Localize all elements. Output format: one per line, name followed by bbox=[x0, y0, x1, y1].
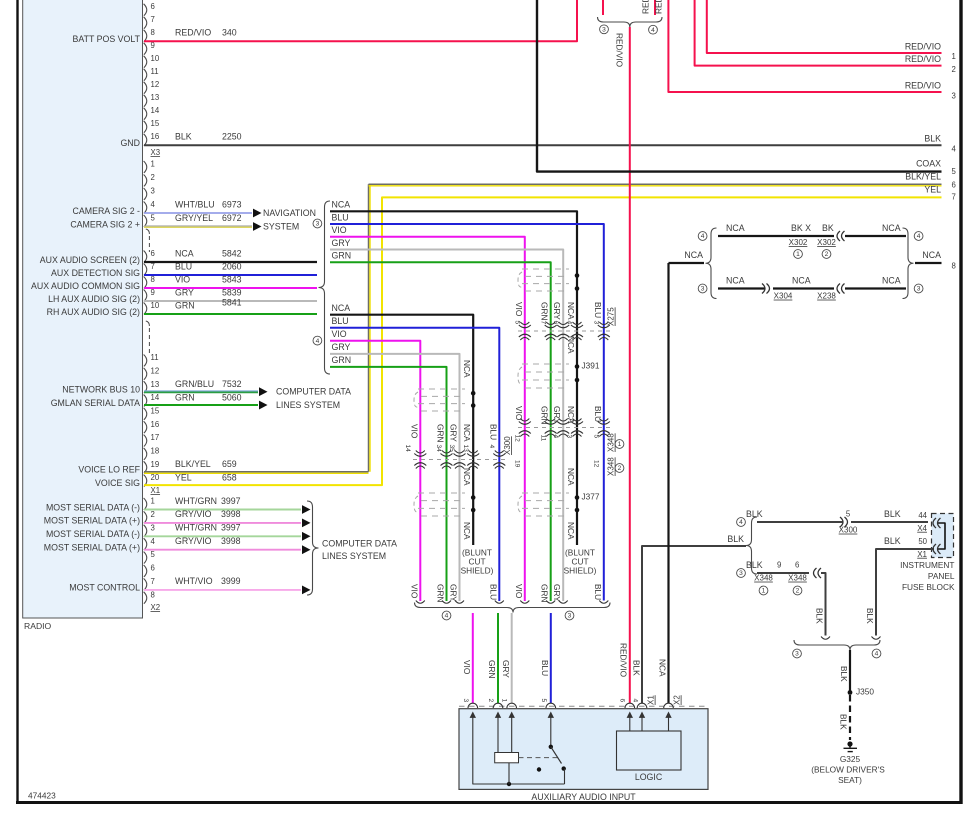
wire BLU group 3 bbox=[330, 224, 604, 601]
svg-text:8: 8 bbox=[151, 275, 155, 284]
wire GRN 5060 gmlan bbox=[144, 404, 258, 406]
svg-text:AUX AUDIO COMMON SIG: AUX AUDIO COMMON SIG bbox=[31, 281, 140, 291]
wire BLK to J350 bbox=[849, 650, 851, 691]
wire WHT/GRN 3997 MOST pin 3 bbox=[144, 535, 301, 537]
connector X275 row dashes bbox=[518, 330, 610, 332]
wire BLK dashed to ground bbox=[849, 695, 851, 740]
radio X1 pin 11 stub bbox=[144, 355, 147, 367]
svg-text:BLU: BLU bbox=[593, 302, 603, 318]
wire NCA stub to variant brace bbox=[669, 262, 705, 264]
connector X300 terminal GRY bbox=[454, 454, 466, 457]
svg-text:1: 1 bbox=[618, 441, 622, 448]
wire BLK aux pin 4 to fuse brace bbox=[642, 546, 746, 703]
aux internal arrow bbox=[472, 716, 474, 722]
svg-text:MOST SERIAL DATA (-): MOST SERIAL DATA (-) bbox=[46, 502, 140, 512]
radio X1 pin 6 stub bbox=[144, 251, 147, 263]
svg-text:(BELOW DRIVER'S: (BELOW DRIVER'S bbox=[811, 765, 885, 775]
svg-text:8: 8 bbox=[151, 590, 155, 599]
svg-text:14: 14 bbox=[404, 445, 411, 453]
radio X1 pin 14 stub bbox=[144, 395, 147, 407]
connector X348 terminal GRY bbox=[557, 422, 569, 425]
aux box connector face dashed bbox=[459, 705, 708, 707]
svg-text:VIO: VIO bbox=[332, 225, 347, 235]
svg-text:12: 12 bbox=[513, 435, 520, 443]
svg-text:3: 3 bbox=[739, 570, 743, 577]
svg-text:11: 11 bbox=[151, 353, 159, 362]
aux switch pivot dot bbox=[549, 745, 553, 749]
svg-text:J391: J391 bbox=[582, 361, 600, 371]
junction J391 lower dot bbox=[575, 378, 580, 383]
svg-text:BLU: BLU bbox=[175, 261, 192, 271]
svg-text:GRN: GRN bbox=[175, 392, 195, 402]
radio X1 pin 19 stub bbox=[144, 461, 147, 473]
svg-text:BLK: BLK bbox=[727, 534, 744, 544]
svg-text:NCA: NCA bbox=[882, 275, 901, 285]
fuse block bus bar bbox=[938, 523, 946, 549]
svg-text:NCA: NCA bbox=[882, 223, 901, 233]
radio X2 pin 3 stub bbox=[144, 525, 147, 537]
wire BLU to aux input pin 5 bbox=[550, 613, 552, 703]
connector X348 terminal NCA bbox=[571, 422, 583, 425]
connector X275 terminal GRY bbox=[557, 325, 569, 328]
svg-text:SHIELD): SHIELD) bbox=[461, 566, 494, 576]
svg-text:GRN: GRN bbox=[540, 584, 550, 602]
footnote circle 3 below merge bbox=[565, 611, 574, 620]
wire NCA to aux X2 bbox=[667, 263, 669, 703]
arrow MOST pin 4 bbox=[302, 545, 311, 554]
svg-text:1: 1 bbox=[151, 497, 155, 506]
wire NCA group 3 bbox=[330, 211, 577, 545]
logic feed wires bbox=[629, 721, 631, 731]
hook BLK v3 bbox=[821, 637, 830, 640]
svg-text:2: 2 bbox=[796, 588, 800, 595]
auxiliary audio input box bbox=[459, 709, 708, 790]
wire end hook bbox=[546, 601, 555, 604]
radio X1 pin 12 stub bbox=[144, 368, 147, 380]
wire VIO to aux input pin 3 bbox=[472, 613, 474, 703]
svg-text:RED/VIO: RED/VIO bbox=[618, 643, 628, 678]
svg-text:474423: 474423 bbox=[28, 791, 56, 801]
wire BLK fuse 50 bbox=[876, 549, 934, 636]
svg-text:3: 3 bbox=[151, 187, 155, 196]
svg-text:VIO: VIO bbox=[514, 406, 524, 421]
svg-text:4: 4 bbox=[701, 233, 705, 240]
svg-text:11: 11 bbox=[151, 67, 159, 76]
svg-text:BLK: BLK bbox=[746, 560, 763, 570]
svg-text:VIO: VIO bbox=[409, 584, 419, 599]
aux internal arrow bbox=[550, 716, 552, 722]
svg-text:7532: 7532 bbox=[222, 379, 242, 389]
svg-text:RADIO: RADIO bbox=[24, 621, 52, 631]
svg-text:X238: X238 bbox=[817, 292, 836, 301]
svg-text:2: 2 bbox=[952, 65, 956, 74]
junction J350 dot bbox=[848, 690, 853, 695]
svg-text:16: 16 bbox=[151, 132, 160, 141]
svg-text:4: 4 bbox=[316, 338, 320, 345]
footnote circle 1 ground bbox=[759, 586, 768, 595]
svg-text:4: 4 bbox=[917, 233, 921, 240]
footnote circle 4 left bbox=[698, 232, 707, 241]
svg-text:5839: 5839 bbox=[222, 287, 242, 297]
svg-text:NAVIGATION: NAVIGATION bbox=[263, 208, 316, 218]
radio X1 pin 4 stub bbox=[144, 202, 147, 214]
aux internal arrow bbox=[629, 716, 631, 722]
split brace radio aux wires bbox=[319, 201, 331, 374]
svg-text:7: 7 bbox=[952, 193, 956, 202]
svg-text:GRY: GRY bbox=[449, 584, 459, 602]
svg-text:BLK: BLK bbox=[839, 714, 849, 730]
footnote circle 4 below merge bbox=[442, 611, 451, 620]
shield drain dot S5 bottom bbox=[471, 508, 476, 513]
connector X275 terminal VIO bbox=[519, 325, 531, 328]
svg-text:NCA: NCA bbox=[462, 522, 472, 540]
svg-text:YEL: YEL bbox=[175, 472, 192, 482]
footnote circle 2 X348 bbox=[615, 464, 624, 473]
svg-text:6: 6 bbox=[795, 561, 799, 570]
aux resistor lead bbox=[508, 763, 510, 784]
svg-text:NCA: NCA bbox=[566, 468, 576, 486]
svg-text:2: 2 bbox=[487, 699, 494, 703]
radio X1 pin 9 stub bbox=[144, 290, 147, 302]
svg-text:WHT/GRN: WHT/GRN bbox=[175, 496, 217, 506]
wire RED/VIO edge 1 bbox=[707, 0, 942, 53]
wire NCA variant 3 segment c bbox=[845, 287, 906, 289]
connector X348 row dashes bbox=[518, 427, 610, 429]
svg-text:4: 4 bbox=[651, 27, 655, 34]
svg-text:4: 4 bbox=[445, 613, 449, 620]
top brace RED/VIO variants bbox=[598, 17, 663, 27]
svg-text:MOST SERIAL DATA (+): MOST SERIAL DATA (+) bbox=[44, 516, 140, 526]
aux internal wire from pin 3 bbox=[473, 721, 565, 784]
shield (group 3 upper) bbox=[522, 268, 569, 270]
svg-text:VOICE LO REF: VOICE LO REF bbox=[78, 465, 140, 475]
svg-text:5: 5 bbox=[151, 214, 156, 223]
svg-text:5060: 5060 bbox=[222, 392, 242, 402]
svg-text:LINES SYSTEM: LINES SYSTEM bbox=[276, 400, 340, 410]
connector X348 terminal GRN bbox=[545, 422, 557, 425]
wire NCA to edge pin 8 bbox=[915, 262, 942, 264]
radio X3 pin 15 stub bbox=[144, 121, 147, 133]
connector X275 terminal NCA bbox=[571, 325, 583, 328]
svg-text:X348: X348 bbox=[607, 433, 616, 452]
wire NCA variant 4 segment b bbox=[845, 235, 906, 237]
radio X3 pin 13 stub bbox=[144, 95, 147, 107]
shield drain dot S1 bottom bbox=[575, 286, 580, 291]
svg-text:NCA: NCA bbox=[175, 248, 194, 258]
aux entry arc bbox=[637, 703, 647, 708]
connector X238 female bbox=[837, 284, 840, 294]
radio X1 gap mark 10-11 bbox=[146, 321, 150, 326]
aux entry arc pin 1 bbox=[507, 703, 517, 708]
svg-text:2060: 2060 bbox=[222, 261, 242, 271]
connector X275 terminal GRN bbox=[545, 325, 557, 328]
svg-text:X3: X3 bbox=[151, 148, 161, 157]
svg-text:COAX: COAX bbox=[916, 159, 941, 169]
svg-text:3999: 3999 bbox=[221, 576, 241, 586]
footnote circle 3 left bbox=[698, 284, 707, 293]
radio X1 pin 17 stub bbox=[144, 435, 147, 447]
svg-text:7: 7 bbox=[151, 15, 155, 24]
wire GRY/VIO 3998 MOST pin 2 bbox=[144, 522, 301, 524]
svg-text:3: 3 bbox=[917, 286, 921, 293]
svg-text:NCA: NCA bbox=[922, 250, 941, 260]
shield (group 3 lower) bbox=[522, 492, 569, 494]
svg-text:X300: X300 bbox=[503, 436, 512, 455]
junction J377 lower dot bbox=[575, 508, 580, 513]
wire GRN group 4 bbox=[330, 367, 447, 601]
connector X275 terminal BLU bbox=[598, 325, 610, 328]
svg-text:X1: X1 bbox=[151, 486, 161, 495]
merge brace groups 3 and 4 bbox=[415, 603, 611, 613]
radio X3 pin 9 stub bbox=[144, 43, 147, 55]
svg-text:VIO: VIO bbox=[514, 584, 524, 599]
svg-text:2: 2 bbox=[151, 510, 155, 519]
junction J391 dot bbox=[575, 364, 580, 369]
svg-text:GRN: GRN bbox=[540, 302, 550, 320]
svg-text:CAMERA SIG 2 +: CAMERA SIG 2 + bbox=[70, 219, 140, 229]
svg-text:BLU: BLU bbox=[488, 584, 498, 600]
svg-text:3: 3 bbox=[566, 435, 573, 439]
svg-text:BLU: BLU bbox=[332, 212, 349, 222]
radio X1 pin 2 stub bbox=[144, 175, 147, 187]
svg-text:4: 4 bbox=[739, 519, 743, 526]
aux internal arrow bbox=[497, 716, 499, 722]
aux switch blade bbox=[551, 747, 562, 764]
svg-text:RED/VIO: RED/VIO bbox=[654, 0, 664, 14]
wire VIO 5843 from radio pin 8 bbox=[144, 287, 317, 289]
svg-text:CAMERA SIG 2 -: CAMERA SIG 2 - bbox=[73, 206, 141, 216]
svg-text:BLU: BLU bbox=[332, 316, 349, 326]
svg-text:BLK: BLK bbox=[814, 608, 824, 624]
svg-text:X1: X1 bbox=[647, 695, 656, 705]
svg-text:2250: 2250 bbox=[222, 131, 242, 141]
svg-text:5841: 5841 bbox=[222, 297, 242, 307]
svg-text:GRN/BLU: GRN/BLU bbox=[175, 379, 214, 389]
svg-text:8: 8 bbox=[151, 28, 155, 37]
svg-text:X348: X348 bbox=[788, 574, 807, 583]
svg-text:9: 9 bbox=[777, 561, 781, 570]
svg-text:X302: X302 bbox=[817, 238, 836, 247]
radio X1 pin 16 stub bbox=[144, 421, 147, 433]
wire RED/VIO to aux pin 6 bbox=[629, 27, 631, 703]
connector X300 row dashes bbox=[413, 459, 506, 461]
svg-text:4: 4 bbox=[566, 321, 573, 325]
svg-text:3: 3 bbox=[592, 321, 599, 325]
wire GRY 5839 from radio pin 9 bbox=[144, 300, 317, 302]
svg-text:6: 6 bbox=[151, 2, 155, 11]
svg-text:BLK: BLK bbox=[865, 608, 875, 624]
shield (group 4 upper) bbox=[418, 388, 465, 390]
svg-text:5842: 5842 bbox=[222, 248, 242, 258]
aux entry arc bbox=[625, 703, 635, 708]
radio X3 pin 8 stub bbox=[144, 30, 147, 42]
svg-text:5: 5 bbox=[513, 321, 520, 325]
svg-text:3: 3 bbox=[568, 613, 572, 620]
svg-text:RED/VIO: RED/VIO bbox=[615, 33, 625, 68]
aux switch contact dot bbox=[562, 766, 566, 770]
wire BLK ground variant 3 bbox=[757, 572, 809, 574]
svg-text:5: 5 bbox=[952, 167, 957, 176]
wire GRY/YEL 6972 camera sig bbox=[144, 225, 252, 227]
connector X302 female bbox=[837, 231, 840, 241]
arrow MOST pin 2 bbox=[302, 519, 311, 528]
svg-text:COMPUTER DATA: COMPUTER DATA bbox=[322, 538, 397, 548]
svg-text:13: 13 bbox=[151, 380, 160, 389]
arrow MOST pin 3 bbox=[302, 532, 311, 541]
svg-text:19: 19 bbox=[513, 460, 520, 468]
svg-text:GND: GND bbox=[120, 138, 140, 148]
wire NCA group 4 bbox=[330, 315, 473, 545]
svg-text:X2: X2 bbox=[151, 603, 161, 612]
brace computer data lines (MOST) bbox=[307, 501, 319, 595]
aux resistor box bbox=[495, 753, 519, 763]
svg-text:4: 4 bbox=[875, 651, 879, 658]
svg-text:7: 7 bbox=[151, 577, 155, 586]
svg-text:BLK/YEL: BLK/YEL bbox=[905, 171, 941, 181]
svg-text:RH AUX AUDIO SIG (2): RH AUX AUDIO SIG (2) bbox=[47, 307, 140, 317]
svg-text:5: 5 bbox=[540, 699, 547, 703]
svg-text:4: 4 bbox=[488, 445, 495, 449]
arrow MOST pin 1 bbox=[302, 505, 311, 514]
wire end hook bbox=[520, 601, 529, 604]
radio X1 pin 18 stub bbox=[144, 448, 147, 460]
svg-text:WHT/VIO: WHT/VIO bbox=[175, 576, 213, 586]
svg-text:NETWORK BUS 10: NETWORK BUS 10 bbox=[62, 385, 140, 395]
junction J377 dot bbox=[575, 495, 580, 500]
svg-text:X275: X275 bbox=[607, 307, 616, 326]
svg-text:BLK: BLK bbox=[175, 131, 192, 141]
svg-text:18: 18 bbox=[151, 447, 160, 456]
shield (group 3 middle) bbox=[522, 363, 569, 365]
svg-text:BLK/YEL: BLK/YEL bbox=[175, 459, 211, 469]
wire BLK ground variant 4 a bbox=[757, 521, 843, 523]
svg-text:3: 3 bbox=[952, 92, 956, 101]
svg-text:6: 6 bbox=[151, 564, 155, 573]
svg-text:3: 3 bbox=[795, 651, 799, 658]
svg-text:12: 12 bbox=[592, 460, 599, 468]
connector X300 terminal BLU bbox=[493, 454, 505, 457]
svg-text:AUX AUDIO SCREEN (2): AUX AUDIO SCREEN (2) bbox=[40, 255, 140, 265]
svg-text:PANEL: PANEL bbox=[928, 571, 955, 581]
svg-text:NCA: NCA bbox=[684, 250, 703, 260]
svg-text:GRY: GRY bbox=[449, 424, 459, 442]
svg-text:LOGIC: LOGIC bbox=[635, 772, 663, 782]
svg-text:X304: X304 bbox=[774, 292, 793, 301]
radio X2 pin 8 stub bbox=[144, 592, 147, 604]
page border right bbox=[959, 0, 962, 804]
wire GRY/VIO 3998 MOST pin 4 bbox=[144, 549, 301, 551]
svg-text:658: 658 bbox=[222, 472, 237, 482]
wire GRN group 3 bbox=[330, 262, 551, 601]
radio X1 pin 7 stub bbox=[144, 264, 147, 276]
svg-text:BATT POS VOLT: BATT POS VOLT bbox=[73, 34, 141, 44]
svg-text:X4: X4 bbox=[917, 524, 927, 533]
svg-text:GRN: GRN bbox=[175, 300, 195, 310]
wire NCA variant 3 segment a bbox=[718, 287, 765, 289]
aux switch open contact dot bbox=[537, 767, 541, 771]
connector X304 male bbox=[767, 284, 770, 294]
svg-text:RED/VIO: RED/VIO bbox=[905, 80, 941, 90]
svg-text:13: 13 bbox=[151, 93, 160, 102]
shield drain dot S5 top bbox=[471, 495, 476, 500]
wire end hook bbox=[442, 601, 451, 604]
logic box bbox=[617, 731, 682, 770]
svg-text:12: 12 bbox=[151, 80, 160, 89]
radio X3 pin 6 stub bbox=[144, 4, 147, 16]
footnote circle 4 ground bbox=[737, 518, 746, 527]
hook BLK v4 bbox=[872, 637, 881, 640]
radio X1 pin 8 stub bbox=[144, 277, 147, 289]
svg-text:2: 2 bbox=[151, 173, 155, 182]
svg-text:4: 4 bbox=[952, 145, 957, 154]
svg-text:WHT/GRN: WHT/GRN bbox=[175, 523, 217, 533]
svg-text:X348: X348 bbox=[754, 574, 773, 583]
arrow to navigation system (top) bbox=[253, 209, 262, 218]
shield drain dot S4 bottom bbox=[471, 403, 476, 408]
connector X348 terminal VIO bbox=[519, 422, 531, 425]
wire GRN to aux input pin 2 bbox=[497, 613, 499, 703]
svg-text:1: 1 bbox=[151, 160, 155, 169]
svg-text:J377: J377 bbox=[582, 492, 600, 502]
connector X348 terminal BLU bbox=[598, 422, 610, 425]
svg-text:19: 19 bbox=[151, 460, 160, 469]
radio X3 pin 10 stub bbox=[144, 56, 147, 68]
svg-text:6: 6 bbox=[151, 249, 155, 258]
aux entry arc pin 3 bbox=[468, 703, 478, 708]
radio X3 pin 14 stub bbox=[144, 108, 147, 120]
svg-text:GRY/YEL: GRY/YEL bbox=[175, 213, 213, 223]
svg-text:6973: 6973 bbox=[222, 199, 242, 209]
wire WHT/GRN 3997 MOST pin 1 bbox=[144, 509, 301, 511]
svg-text:35: 35 bbox=[448, 445, 455, 453]
aux internal arrow bbox=[641, 716, 643, 722]
svg-text:NCA: NCA bbox=[332, 200, 351, 210]
wire BLK/YEL 659 voice lo ref bbox=[144, 471, 369, 473]
aux switch linkage dashed bbox=[519, 757, 559, 759]
footnote circle 4 top bbox=[649, 25, 658, 34]
aux internal wires pins 2,1 bbox=[497, 721, 499, 753]
radio X1 pin 20 stub bbox=[144, 475, 147, 487]
connector X300 terminal VIO bbox=[414, 454, 426, 457]
svg-text:AUX DETECTION SIG: AUX DETECTION SIG bbox=[51, 268, 140, 278]
wire NCA variant 3 segment b bbox=[773, 287, 834, 289]
svg-text:3997: 3997 bbox=[221, 496, 241, 506]
svg-text:X300: X300 bbox=[839, 526, 858, 535]
arrow to navigation system (bottom) bbox=[253, 222, 262, 231]
svg-text:3: 3 bbox=[462, 699, 469, 703]
svg-text:6: 6 bbox=[952, 181, 956, 190]
radio X1 gap mark 5-6 bbox=[146, 229, 150, 234]
wire end hook bbox=[599, 601, 608, 604]
svg-text:RED/VIO: RED/VIO bbox=[905, 54, 941, 64]
page border bottom bbox=[16, 801, 962, 804]
aux internal arrow bbox=[668, 716, 670, 722]
page border left bbox=[16, 0, 18, 803]
svg-text:1: 1 bbox=[762, 588, 766, 595]
svg-text:3: 3 bbox=[602, 26, 606, 33]
svg-text:7: 7 bbox=[539, 321, 546, 325]
connector X300 male (ground) bbox=[845, 517, 848, 527]
wire BLK ground variant 3 down bbox=[821, 573, 826, 636]
ground merge brace bbox=[794, 640, 880, 650]
svg-text:SYSTEM: SYSTEM bbox=[263, 221, 299, 231]
svg-text:NCA: NCA bbox=[566, 302, 576, 320]
svg-text:YEL: YEL bbox=[924, 185, 941, 195]
wire RED/VIO stub variant 4 bbox=[654, 0, 656, 15]
svg-text:FUSE BLOCK: FUSE BLOCK bbox=[902, 582, 955, 592]
connector X1 female (fuse) bbox=[933, 544, 936, 554]
ground G325 symbol bbox=[847, 741, 852, 746]
